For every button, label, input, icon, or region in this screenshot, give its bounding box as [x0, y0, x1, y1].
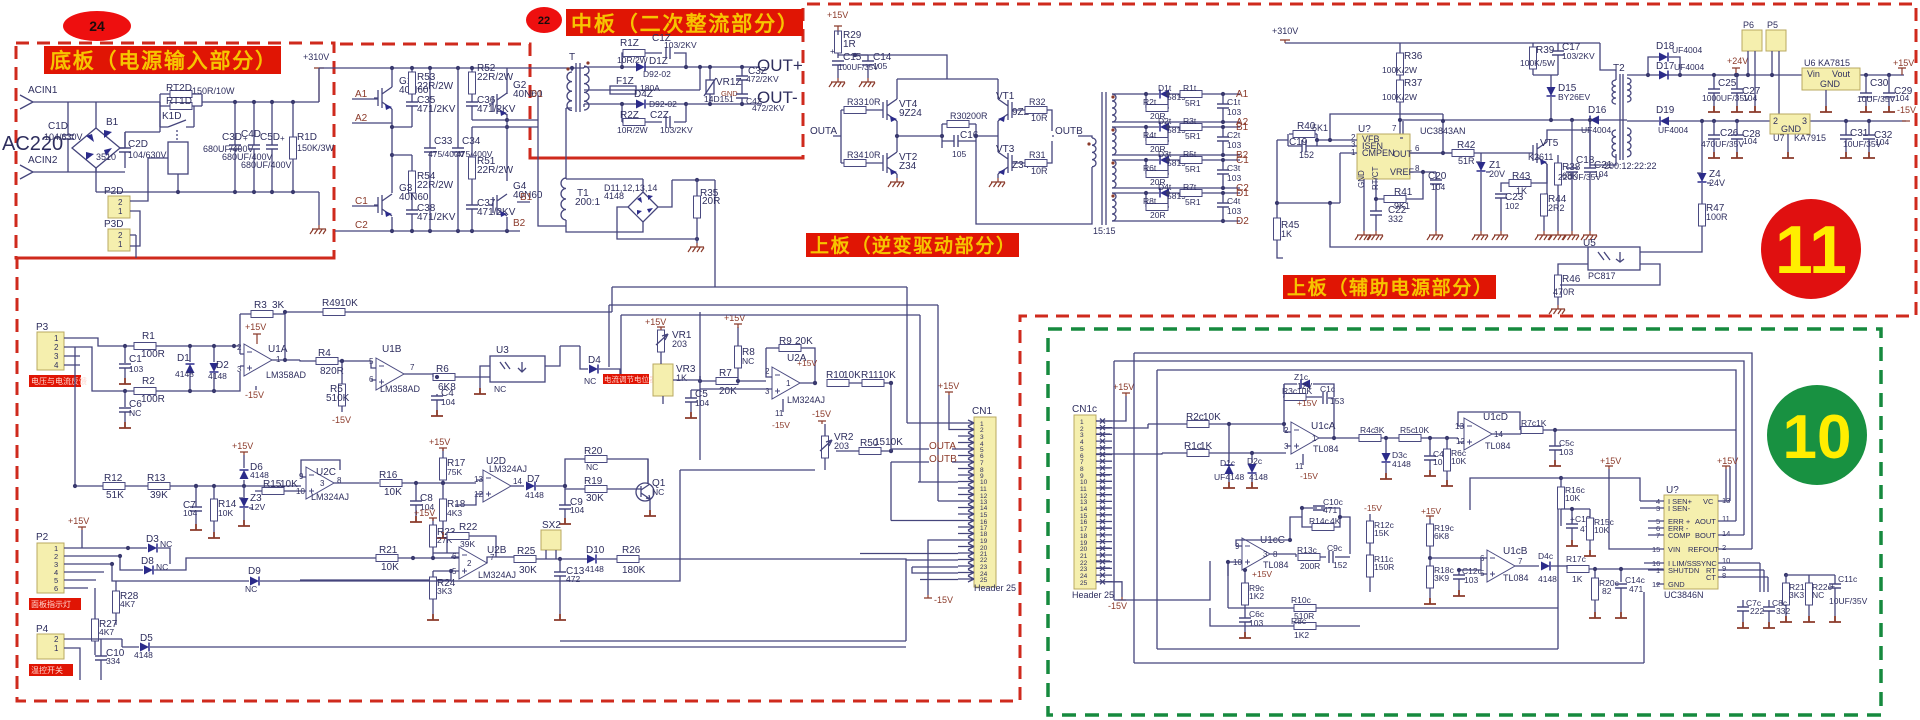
svg-text:4148: 4148: [1538, 574, 1557, 584]
svg-text:332: 332: [1388, 214, 1403, 224]
wire phase output to transformer: [507, 68, 584, 71]
diode D3c: [1382, 453, 1391, 462]
resistor R45: [1274, 218, 1281, 240]
fuse F1Z: [584, 89, 608, 91]
svg-text:R11: R11: [861, 370, 879, 381]
svg-text:R3t: R3t: [1183, 116, 1197, 126]
svg-text:1K: 1K: [1200, 441, 1213, 452]
ground: [1581, 231, 1597, 240]
title banner bottom board: [44, 46, 281, 74]
capacitor C14c: [1615, 584, 1627, 588]
svg-text:面板指示灯: 面板指示灯: [31, 599, 71, 609]
svg-text:NC: NC: [129, 408, 141, 418]
svg-text:B1: B1: [106, 117, 119, 128]
svg-text:4148: 4148: [175, 369, 194, 379]
capacitor C37: [466, 205, 478, 209]
capacitor C14: [862, 61, 874, 65]
resistor R20: [585, 456, 607, 463]
svg-text:BOUT: BOUT: [1695, 531, 1716, 540]
resistor R1D: [290, 102, 297, 192]
svg-text:103/2KV: 103/2KV: [1562, 51, 1595, 61]
svg-text:-15V: -15V: [772, 420, 790, 430]
svg-text:电压与电流反馈: 电压与电流反馈: [31, 376, 87, 386]
svg-text:+15V: +15V: [1297, 398, 1317, 408]
svg-text:U7: U7: [1773, 133, 1785, 143]
svg-text:10K: 10K: [340, 298, 358, 309]
svg-text:C31: C31: [1850, 128, 1869, 139]
svg-text:R42: R42: [1457, 140, 1476, 151]
resistor R16c: [1558, 487, 1565, 509]
svg-text:1R: 1R: [843, 39, 856, 50]
svg-text:1: 1: [54, 334, 59, 343]
svg-text:C20: C20: [1428, 171, 1447, 182]
resistor R4: [316, 358, 338, 365]
capacitor C23: [1495, 194, 1507, 198]
svg-text:D92-02: D92-02: [643, 69, 671, 79]
wire T2 primary: [1590, 43, 1616, 165]
svg-text:K2611: K2611: [1528, 152, 1553, 162]
svg-text:+15V: +15V: [1893, 58, 1914, 68]
resistor R5: [339, 384, 346, 406]
svg-text:OUTB: OUTB: [929, 454, 957, 465]
svg-text:-15V: -15V: [332, 415, 351, 425]
diode D8: [144, 566, 153, 575]
svg-text:1: 1: [118, 240, 123, 249]
svg-text:C1: C1: [1236, 155, 1249, 166]
svg-text:10K: 10K: [1594, 525, 1609, 535]
svg-text:10K: 10K: [1414, 425, 1429, 435]
wire R40 C19 bracket: [1277, 114, 1443, 146]
svg-text:471/2KV: 471/2KV: [417, 104, 456, 115]
svg-text:+15V: +15V: [68, 516, 89, 526]
svg-text:VT5: VT5: [1540, 138, 1559, 149]
svg-text:11: 11: [1080, 486, 1087, 493]
resistor R13c: [1298, 554, 1320, 561]
svg-text:ACIN1: ACIN1: [28, 85, 58, 96]
svg-text:10R: 10R: [864, 97, 881, 107]
svg-text:103: 103: [129, 364, 143, 374]
svg-text:VIN: VIN: [1668, 545, 1681, 554]
svg-text:R9: R9: [779, 336, 792, 347]
wire +310V rail: [319, 68, 507, 148]
svg-text:10K: 10K: [1203, 412, 1221, 423]
svg-text:Header 25: Header 25: [1072, 590, 1114, 600]
svg-text:KA7915: KA7915: [1794, 133, 1826, 143]
svg-text:10R: 10R: [864, 150, 881, 160]
wire phase bracket: [507, 95, 566, 226]
svg-text:R34: R34: [847, 150, 864, 160]
power +310V: [314, 68, 324, 102]
svg-text:D16: D16: [1588, 105, 1607, 116]
svg-text:VT3: VT3: [996, 144, 1015, 155]
wire top rail +24V: [1627, 57, 1904, 75]
svg-text:2: 2: [1722, 543, 1726, 552]
resistor R21c: [1783, 583, 1790, 605]
ground: [1549, 231, 1565, 240]
svg-text:17: 17: [1080, 526, 1088, 533]
svg-text:30K: 30K: [586, 493, 604, 504]
svg-text:4148: 4148: [525, 490, 544, 500]
wire bridge out top: [120, 132, 160, 148]
svg-text:470R: 470R: [1553, 287, 1575, 297]
ground: [1472, 231, 1488, 240]
resistor R9: [779, 345, 801, 352]
capacitor C38: [406, 210, 418, 214]
svg-text:A1: A1: [1236, 89, 1249, 100]
wire left leg: [391, 109, 393, 193]
svg-text:1: 1: [54, 644, 59, 653]
svg-text:+15V: +15V: [245, 322, 266, 332]
ground: [1535, 231, 1551, 240]
svg-text:NC: NC: [584, 376, 596, 386]
svg-text:P5: P5: [1767, 20, 1778, 30]
capacitor C11c: [1829, 584, 1841, 588]
capacitor C10c: [1313, 506, 1325, 510]
svg-text:10: 10: [1783, 403, 1852, 472]
svg-text:RT2D: RT2D: [166, 83, 192, 94]
svg-text:+15V: +15V: [645, 317, 666, 327]
op-amp U2A LM324AJ: [772, 367, 800, 399]
ground: [859, 78, 875, 87]
resistor R46: [1555, 275, 1562, 297]
resistor R38: [1555, 163, 1562, 185]
svg-text:18: 18: [980, 531, 988, 538]
resistor R9c: [1242, 583, 1249, 605]
svg-text:C33: C33: [434, 136, 453, 147]
resistor R33: [844, 107, 866, 114]
svg-text:3: 3: [320, 479, 325, 488]
svg-text:C18: C18: [1576, 155, 1595, 166]
svg-text:底板（电源输入部分）: 底板（电源输入部分）: [50, 49, 276, 73]
zener Z1: [1477, 162, 1486, 171]
ground: [1367, 231, 1383, 240]
svg-text:ACIN2: ACIN2: [28, 155, 58, 166]
svg-text:NC: NC: [652, 487, 664, 497]
svg-text:150K/3W: 150K/3W: [297, 143, 335, 153]
varistor VR1Z: [706, 80, 714, 94]
svg-text:R10c: R10c: [1291, 595, 1312, 605]
svg-text:-15V: -15V: [934, 595, 953, 605]
svg-text:10K: 10K: [843, 370, 861, 381]
capacitor C30: [1860, 93, 1872, 97]
svg-text:51K: 51K: [106, 490, 124, 501]
transistor G3: [374, 194, 392, 217]
svg-text:+: +: [280, 134, 285, 143]
svg-text:R33: R33: [847, 97, 864, 107]
svg-text:103: 103: [1227, 173, 1241, 183]
capacitor C2D: [119, 132, 131, 168]
transistor G1: [374, 87, 392, 110]
diode D5: [140, 643, 149, 652]
svg-text:1K: 1K: [1281, 229, 1292, 239]
lower cluster: resistor R21: [376, 555, 398, 562]
svg-text:P2: P2: [36, 532, 49, 543]
svg-text:3: 3: [1802, 116, 1807, 126]
transistor G2: [489, 93, 507, 116]
wire bottom rail: [96, 168, 319, 225]
svg-text:LM358AD: LM358AD: [266, 370, 307, 380]
svg-text:471: 471: [1629, 584, 1643, 594]
svg-text:-15V: -15V: [245, 390, 264, 400]
svg-text:AOUT: AOUT: [1695, 517, 1716, 526]
svg-text:2: 2: [1773, 116, 1778, 126]
svg-text:D1: D1: [530, 89, 543, 100]
regulator U7 KA7915: [1770, 114, 1810, 134]
diode D3t 5819: [1160, 156, 1169, 165]
svg-text:10R: 10R: [1031, 113, 1048, 123]
svg-text:20R: 20R: [702, 196, 720, 207]
svg-text:R26: R26: [622, 545, 641, 556]
svg-text:R13c: R13c: [1297, 545, 1318, 555]
svg-text:6: 6: [1415, 144, 1420, 153]
svg-text:10K: 10K: [878, 370, 896, 381]
resistor R39: [1530, 47, 1537, 69]
svg-text:1K: 1K: [1536, 418, 1547, 428]
capacitor C34: [452, 148, 464, 152]
capacitor C27: [1731, 89, 1743, 93]
svg-text:R10: R10: [826, 370, 845, 381]
svg-text:D9: D9: [248, 566, 261, 577]
capacitor C35: [406, 102, 418, 106]
capacitor C4: [431, 396, 443, 400]
svg-text:R43: R43: [1512, 171, 1531, 182]
resistor R8: [735, 346, 742, 368]
wire bus loops: [1114, 353, 1752, 663]
svg-text:R14c: R14c: [1309, 516, 1330, 526]
svg-text:+15V: +15V: [827, 10, 848, 20]
resistor R4t 20R: [1146, 138, 1168, 145]
svg-text:R32: R32: [1029, 97, 1046, 107]
capacitor C7c: [1737, 607, 1749, 611]
svg-text:15: 15: [980, 512, 988, 519]
svg-text:103: 103: [1559, 447, 1573, 457]
svg-text:+310V: +310V: [1272, 26, 1298, 36]
snubber C2Z: [666, 116, 670, 128]
svg-text:332: 332: [1776, 606, 1790, 616]
capacitor C31: [1840, 135, 1852, 139]
resistor R53: [409, 72, 416, 94]
svg-text:1K: 1K: [1572, 574, 1583, 584]
capacitor C19: [1302, 140, 1306, 152]
svg-text:R31: R31: [1029, 150, 1046, 160]
svg-text:10R/2W: 10R/2W: [617, 125, 648, 135]
svg-text:D2c: D2c: [1247, 456, 1263, 466]
resistor R20c: [1592, 578, 1599, 600]
snubber R2Z: [622, 104, 686, 122]
svg-text:U1cD: U1cD: [1483, 412, 1508, 423]
resistor R13: [148, 483, 170, 490]
resistor R32: [1025, 107, 1047, 114]
capacitor C29: [1883, 93, 1895, 97]
capacitor C6c: [1239, 618, 1251, 622]
svg-text:15K: 15K: [1374, 528, 1389, 538]
wire chip connections: [1561, 454, 1768, 592]
svg-text:U?: U?: [1666, 485, 1679, 496]
svg-text:C25: C25: [1718, 78, 1737, 89]
svg-text:R1Z: R1Z: [620, 38, 639, 49]
resistor R11: [862, 380, 884, 387]
resistor R50: [859, 448, 881, 455]
svg-text:471/2KV: 471/2KV: [477, 207, 516, 218]
svg-text:13: 13: [1080, 499, 1088, 506]
capacitor C1t 103: [1217, 104, 1229, 108]
svg-text:82: 82: [1602, 586, 1612, 596]
svg-text:105: 105: [873, 61, 887, 71]
svg-text:24V: 24V: [1709, 178, 1725, 188]
svg-text:+15V: +15V: [1113, 382, 1134, 392]
svg-text:T: T: [569, 52, 575, 63]
current transformer T1: [561, 178, 566, 220]
capacitor C20: [1430, 180, 1442, 184]
op-amp U2C LM324AJ: [306, 467, 334, 499]
svg-text:104: 104: [1743, 136, 1757, 146]
svg-text:23: 23: [980, 564, 988, 571]
svg-text:11: 11: [980, 486, 987, 493]
svg-text:22: 22: [538, 15, 550, 27]
resistor R2c: [1187, 421, 1209, 428]
wire ACIN1 to bridge: [33, 102, 160, 128]
resistor R5c: [1399, 435, 1421, 442]
resistor R2t 20R: [1146, 105, 1168, 112]
capacitor C4Z: [736, 94, 748, 98]
resistor R34: [844, 160, 866, 167]
diode D7: [526, 482, 535, 491]
wire opto left: [1330, 203, 1588, 275]
svg-text:R3: R3: [254, 300, 267, 311]
wire CN1c stubs: [1096, 428, 1110, 568]
capacitor C12c: [1453, 575, 1465, 579]
svg-text:D2: D2: [1236, 216, 1249, 227]
drive secondary winding row B1/B2: [1112, 127, 1116, 155]
svg-text:C2Z: C2Z: [650, 110, 669, 121]
svg-text:200R: 200R: [966, 111, 988, 121]
resistor R3t 5R1: [1180, 124, 1202, 131]
svg-text:3K: 3K: [272, 300, 285, 311]
ground: [888, 178, 904, 187]
svg-text:R21: R21: [379, 545, 398, 556]
resistor R5t 5R1: [1180, 157, 1202, 164]
svg-text:Header 25: Header 25: [974, 583, 1016, 593]
capacitor C13: [554, 572, 566, 576]
wire R45 chain: [1277, 140, 1357, 218]
diode D4t 5819: [1160, 189, 1169, 198]
svg-text:4: 4: [1080, 439, 1084, 446]
svg-text:4148: 4148: [208, 371, 227, 381]
svg-text:19: 19: [980, 538, 988, 545]
svg-text:103/2KV: 103/2KV: [660, 125, 693, 135]
svg-text:P2D: P2D: [104, 186, 123, 197]
svg-text:22R/2W: 22R/2W: [477, 165, 514, 176]
svg-text:40N60: 40N60: [399, 192, 429, 203]
svg-text:D2: D2: [216, 360, 229, 371]
svg-text:C15: C15: [843, 52, 862, 63]
title banner mid board: [566, 9, 803, 36]
svg-text:5R1: 5R1: [1185, 98, 1201, 108]
svg-text:U1cA: U1cA: [1311, 421, 1336, 432]
svg-text:24: 24: [1080, 573, 1088, 580]
svg-text:R15: R15: [263, 479, 282, 490]
resistor R54: [409, 171, 416, 193]
ground: [688, 243, 704, 252]
ground: [1492, 231, 1508, 240]
svg-text:PC817: PC817: [1588, 271, 1616, 281]
wire VREF pin8: [1406, 172, 1436, 199]
svg-text:104: 104: [1594, 169, 1608, 179]
transistor G4: [489, 194, 507, 217]
svg-text:R25: R25: [517, 546, 536, 557]
wire primary bottom to current transformer: [566, 108, 572, 178]
capacitor C4t 103: [1217, 203, 1229, 207]
resistor R26: [617, 556, 639, 563]
drive transformer primary 15:15: [1092, 138, 1096, 167]
ground: [829, 78, 845, 87]
svg-text:104: 104: [695, 398, 709, 408]
svg-text:2: 2: [467, 559, 472, 568]
svg-text:5R1: 5R1: [1185, 197, 1201, 207]
svg-text:470UF/35V: 470UF/35V: [1701, 139, 1744, 149]
svg-text:R37: R37: [1404, 78, 1423, 89]
svg-text:D4c: D4c: [1538, 551, 1554, 561]
svg-text:+15V: +15V: [1421, 506, 1441, 516]
svg-text:R1D: R1D: [297, 132, 317, 143]
capacitor C8: [410, 501, 422, 505]
svg-text:D7: D7: [527, 474, 540, 485]
drive secondary winding row D1/D2: [1112, 193, 1116, 221]
resistor R28: [113, 591, 120, 613]
resistor R18: [440, 499, 447, 521]
svg-text:R6t: R6t: [1143, 163, 1157, 173]
svg-text:C3D: C3D: [222, 132, 242, 143]
capacitor C36: [466, 102, 478, 106]
resistor R29: [835, 31, 842, 53]
svg-text:D1: D1: [177, 353, 190, 364]
svg-text:+15V: +15V: [1717, 456, 1738, 466]
ground: [1563, 231, 1579, 240]
resistor R3c: [1284, 394, 1306, 401]
svg-text:CN1: CN1: [972, 406, 992, 417]
svg-text:R7c: R7c: [1521, 418, 1537, 428]
svg-text:R2: R2: [142, 376, 155, 387]
svg-text:5K1: 5K1: [1312, 123, 1328, 133]
capacitor C33: [424, 148, 436, 152]
capacitor C10: [95, 656, 107, 660]
capacitor C3Z: [736, 76, 748, 80]
svg-text:7: 7: [1080, 459, 1084, 466]
resistor R3: [251, 311, 273, 318]
op-amp U2B LM324AJ: [459, 547, 487, 579]
svg-text:P3D: P3D: [104, 219, 123, 230]
svg-text:D8: D8: [141, 556, 154, 567]
svg-text:+15V: +15V: [232, 441, 253, 451]
svg-text:4K3: 4K3: [447, 508, 462, 518]
resistor R14: [211, 499, 218, 521]
svg-text:P6: P6: [1743, 20, 1754, 30]
svg-text:F1Z: F1Z: [616, 76, 634, 87]
diode D19: [1660, 117, 1669, 126]
capacitor C28: [1731, 135, 1743, 139]
tag voltage current feedback: [29, 375, 81, 387]
svg-text:温控开关: 温控开关: [31, 665, 63, 675]
resistor R17c: [1567, 566, 1589, 573]
wire OUT+ rail: [584, 67, 760, 90]
svg-text:10K: 10K: [218, 508, 233, 518]
svg-text:上板（辅助电源部分）: 上板（辅助电源部分）: [1287, 276, 1492, 299]
svg-text:+15V: +15V: [414, 508, 435, 518]
svg-text:T2: T2: [1613, 63, 1625, 74]
transistor Q1: [636, 483, 654, 501]
svg-text:+24V: +24V: [1727, 56, 1748, 66]
svg-text:D1Z: D1Z: [649, 56, 668, 67]
